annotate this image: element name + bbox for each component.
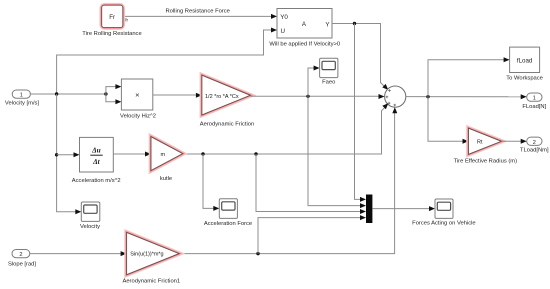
junction aero output bbox=[306, 95, 309, 98]
gain kutle (m) bbox=[151, 137, 183, 182]
svg-text:FLoad[N]: FLoad[N] bbox=[522, 104, 546, 110]
svg-text:Aerodynamic Friction1: Aerodynamic Friction1 bbox=[122, 279, 180, 285]
svg-text:fLoad: fLoad bbox=[517, 57, 533, 64]
scope Acceleration Force bbox=[204, 199, 252, 227]
switch U1 (Will be applied If Velocity>0) bbox=[269, 9, 340, 48]
product block Velocity Hiz^2 bbox=[120, 79, 156, 120]
wire sin gain to sum S bbox=[179, 107, 397, 253]
svg-text:Tire Effective Radius (m): Tire Effective Radius (m) bbox=[454, 159, 518, 165]
wire junction up to Faeo scope bbox=[308, 66, 320, 97]
wire mux to Forces scope bbox=[372, 206, 435, 211]
svg-text:Acceleration m/s^2: Acceleration m/s^2 bbox=[72, 178, 121, 184]
svg-text:Faeo: Faeo bbox=[322, 79, 335, 85]
scope Forces Acting on Vehicle bbox=[412, 199, 475, 227]
wire derivative to kutle bbox=[113, 152, 151, 157]
mux bbox=[366, 195, 372, 224]
svg-text:2: 2 bbox=[533, 140, 536, 146]
wire junction to derivative bbox=[57, 152, 80, 157]
svg-text:1: 1 bbox=[533, 96, 536, 102]
wire junction up to fLoad To Workspace bbox=[428, 57, 510, 96]
wire to product input 1 bbox=[106, 84, 122, 94]
wire junction down to mux input2 bbox=[308, 96, 366, 208]
svg-text:U: U bbox=[281, 28, 285, 35]
svg-text:Velocity: Velocity bbox=[80, 224, 100, 230]
input port 1 Velocity [m/s] bbox=[5, 90, 40, 107]
svg-text:Y: Y bbox=[325, 22, 329, 29]
svg-text:Δu: Δu bbox=[91, 146, 101, 155]
svg-text:Velocity [m/s]: Velocity [m/s] bbox=[5, 101, 40, 107]
wire junction up to mux input4 bbox=[258, 215, 366, 254]
wire velocity to switch U bbox=[57, 28, 277, 95]
junction velocity/derivative bbox=[55, 153, 58, 156]
svg-text:1/2 *ro *A *Cx: 1/2 *ro *A *Cx bbox=[205, 94, 239, 100]
output port 2 TLoad[Nm] bbox=[520, 137, 549, 153]
wire aero gain to sum W bbox=[250, 94, 384, 99]
wire velocity column down bbox=[57, 94, 82, 214]
svg-text:To Workspace: To Workspace bbox=[506, 76, 543, 82]
svg-text:2: 2 bbox=[19, 252, 22, 258]
svg-text:Aerodynamic Friction: Aerodynamic Friction bbox=[200, 121, 254, 127]
constant Fr (Tire Rolling Resistance) bbox=[82, 5, 141, 37]
wire velocity main line bbox=[30, 93, 106, 95]
svg-text:×: × bbox=[135, 90, 139, 99]
svg-text:Velocity Hiz^2: Velocity Hiz^2 bbox=[120, 114, 156, 120]
svg-text:Forces Acting on Vehicle: Forces Acting on Vehicle bbox=[412, 221, 475, 227]
svg-text:Will be applied If Velocity>0: Will be applied If Velocity>0 bbox=[269, 41, 340, 47]
wire to product input 2 bbox=[106, 94, 122, 104]
svg-text:Δt: Δt bbox=[92, 157, 101, 166]
output port 1 FLoad[N] bbox=[522, 93, 546, 110]
wire sum out to output port 1 bbox=[406, 94, 527, 99]
scope Faeo bbox=[320, 58, 338, 85]
svg-text:Fr: Fr bbox=[109, 14, 115, 21]
svg-text:m: m bbox=[161, 152, 166, 158]
wire junction down to Rt gain bbox=[428, 97, 469, 144]
gain Aerodynamic Friction1 (Sin(u(1))*m*g) bbox=[122, 232, 180, 284]
wire junction down to Acceleration Force scope bbox=[203, 154, 219, 211]
wire Rt to output port 2 bbox=[501, 139, 526, 144]
svg-text:Tire Rolling Resistance: Tire Rolling Resistance bbox=[82, 31, 141, 37]
svg-text:Y0: Y0 bbox=[280, 14, 288, 21]
junction switch-Y branch bbox=[353, 22, 356, 25]
svg-text:Acceleration Force: Acceleration Force bbox=[204, 221, 252, 227]
wire slope to sin gain bbox=[30, 251, 127, 256]
input port 2 Slope [rad] bbox=[8, 250, 36, 268]
junction kutle/mux3 bbox=[254, 152, 257, 155]
junction sin/mux4 bbox=[256, 252, 259, 255]
scope Velocity bbox=[80, 202, 100, 230]
svg-text:1: 1 bbox=[20, 93, 23, 99]
svg-text:Rt: Rt bbox=[477, 140, 483, 146]
derivative block Acceleration m/s^2 bbox=[72, 137, 121, 184]
junction kutle/acc-force bbox=[201, 152, 204, 155]
wire Fr to switch Y0 bbox=[123, 14, 277, 19]
junction sum out bbox=[426, 95, 429, 98]
svg-text:TLoad[Nm]: TLoad[Nm] bbox=[520, 147, 549, 153]
sum block bbox=[385, 86, 406, 107]
junction velocity/product bbox=[104, 92, 107, 95]
wire junction down to mux input3 bbox=[256, 154, 366, 214]
wire product to aero gain bbox=[153, 93, 202, 98]
svg-text:Slope [rad]: Slope [rad] bbox=[8, 261, 36, 267]
gain Rt (Tire Effective Radius) bbox=[454, 128, 518, 164]
svg-text:Sin(u(1))*m*g: Sin(u(1))*m*g bbox=[130, 252, 163, 258]
svg-text:fr: fr bbox=[125, 18, 128, 24]
wire kutle line to sum SW bbox=[183, 103, 389, 154]
To Workspace fLoad bbox=[506, 47, 543, 82]
wire switch Y to sum NW bbox=[332, 24, 388, 91]
gain Aerodynamic Friction (1/2 *ro *A *Cx) bbox=[200, 75, 254, 127]
wire switch-Y junction to mux input1 bbox=[355, 24, 367, 202]
svg-text:Rolling Resistance Force: Rolling Resistance Force bbox=[165, 9, 229, 15]
svg-text:kutle: kutle bbox=[160, 176, 172, 182]
junction velocity/U bbox=[55, 92, 58, 95]
